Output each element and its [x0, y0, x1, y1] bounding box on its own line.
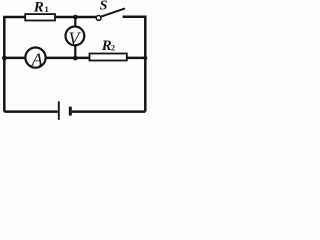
- node: junction dot above voltmeter: [73, 15, 78, 20]
- svg-text:A: A: [31, 49, 44, 69]
- switch S blade: [101, 8, 125, 16]
- svg-text:R: R: [33, 0, 44, 16]
- wire: left vertical + top-left segment: [4, 17, 25, 112]
- resistor R2: [90, 54, 127, 61]
- resistor R1: [25, 14, 55, 20]
- wire: left wire to ammeter: [4, 57, 25, 60]
- wire: R1 to switch: [55, 16, 96, 19]
- ammeter A: [25, 48, 45, 68]
- svg-text:1: 1: [45, 4, 49, 14]
- wire: junction down to voltmeter: [74, 17, 76, 27]
- voltmeter V: [66, 27, 85, 46]
- wire: bottom-left segment: [4, 110, 57, 113]
- node: junction dot on left wire: [2, 56, 7, 61]
- battery: short plate: [69, 107, 72, 116]
- svg-text:S: S: [100, 0, 108, 13]
- switch S pivot: [96, 16, 101, 21]
- svg-text:2: 2: [111, 43, 115, 53]
- wire: R2 to right wire: [127, 57, 146, 60]
- battery: long plate: [58, 101, 60, 120]
- wire: ammeter to R2: [46, 57, 90, 60]
- wire: voltmeter down to middle node: [74, 45, 76, 58]
- wire: switch to top-right corner + right vertical: [123, 17, 146, 112]
- wire: bottom-right segment: [72, 110, 146, 113]
- node: junction at right wire: [143, 56, 147, 60]
- node: junction dot below voltmeter: [73, 56, 78, 61]
